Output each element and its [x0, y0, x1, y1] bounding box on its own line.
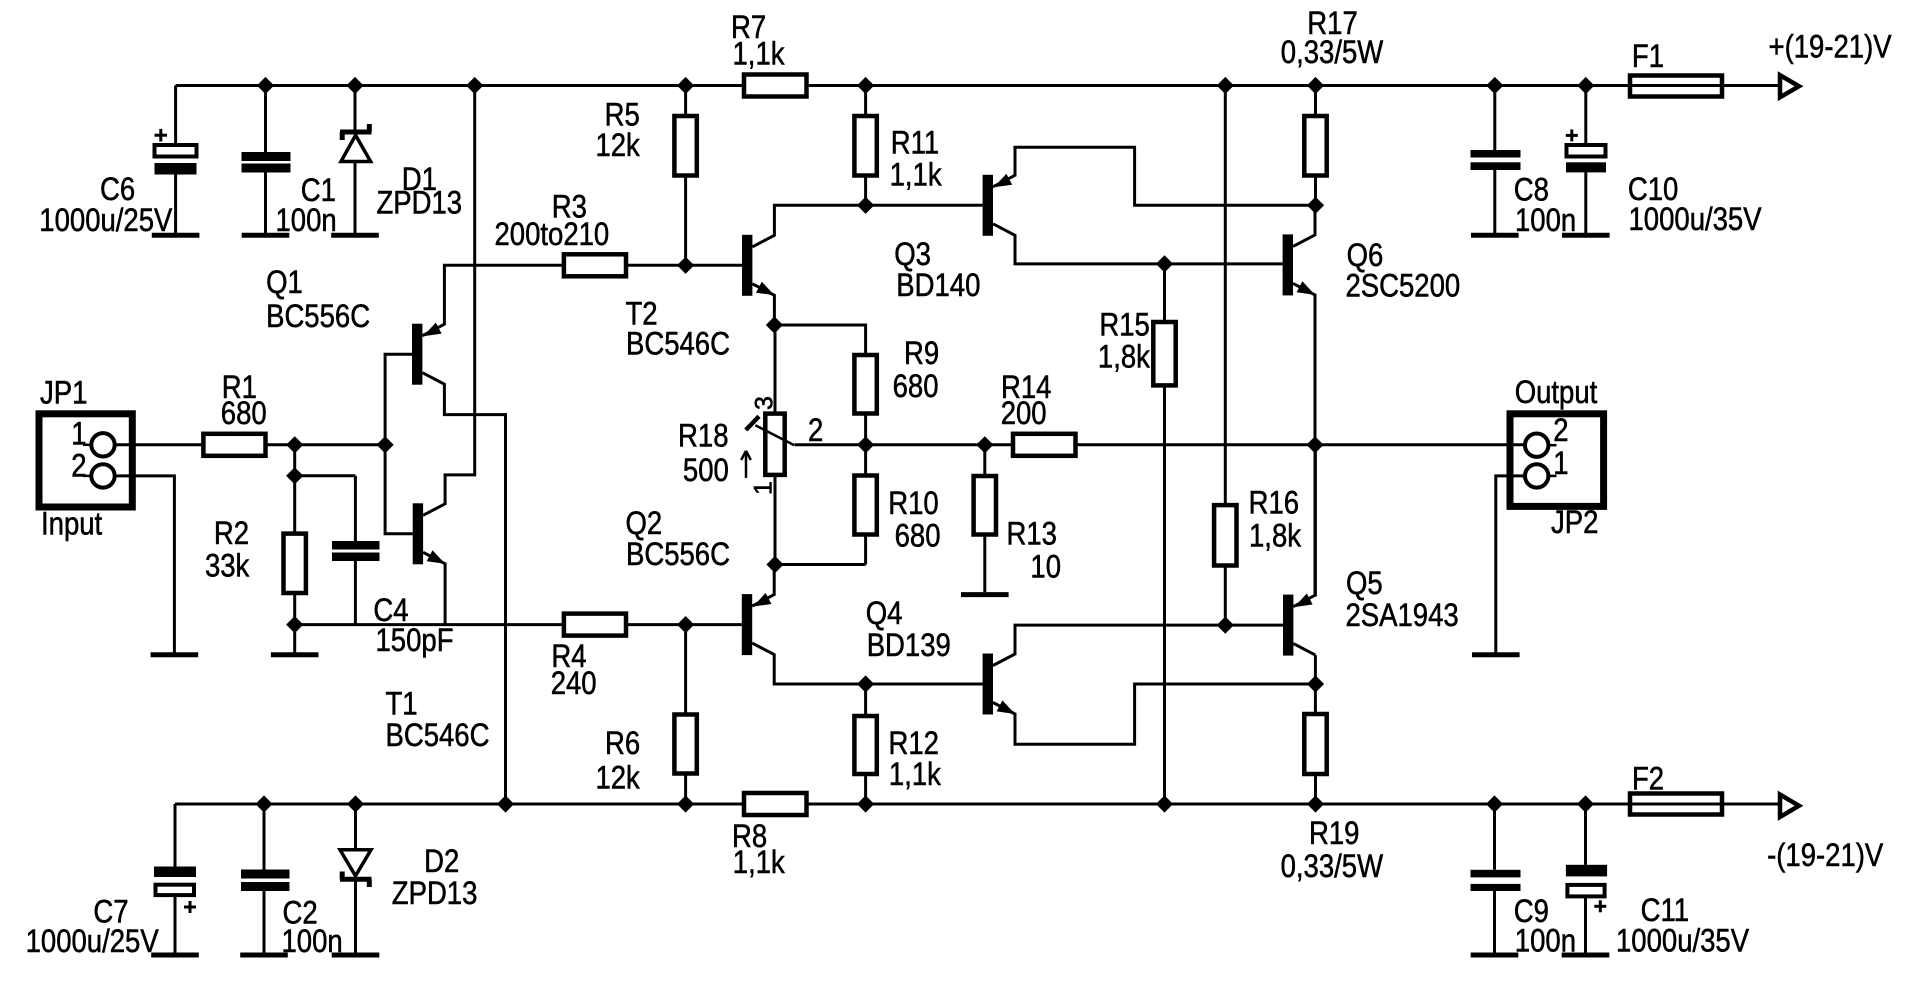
ground for D2	[332, 953, 380, 958]
svg-text:240: 240	[551, 666, 597, 701]
svg-text:680: 680	[895, 519, 941, 554]
transistor T2 bar	[742, 235, 752, 296]
svg-text:12k: 12k	[595, 128, 639, 163]
potentiometer R18	[678, 325, 794, 565]
resistor R17	[1281, 6, 1384, 205]
resistor R7	[731, 10, 807, 96]
svg-text:680: 680	[221, 396, 267, 431]
wire F1 to arrow	[1722, 84, 1780, 87]
wire Q5 collector down	[1314, 655, 1317, 714]
junction on V+ rail x=1315.5	[1307, 77, 1324, 94]
resistor R6	[595, 625, 696, 804]
svg-text:1,8k: 1,8k	[1249, 519, 1301, 554]
svg-text:2SC5200: 2SC5200	[1346, 269, 1461, 304]
wire JP1 pin2 to ground	[115, 476, 175, 653]
svg-text:Q5: Q5	[1346, 566, 1383, 601]
junction R17/Q6 collector node	[1307, 197, 1324, 214]
junction base node B	[377, 436, 394, 453]
ground for C7	[151, 953, 199, 958]
transistor Q1 upper lead	[422, 324, 444, 336]
svg-text:R2: R2	[214, 516, 249, 551]
resistor R15	[1098, 264, 1176, 804]
transistor T2 emitter arrow	[756, 282, 774, 296]
junction R11 node	[857, 197, 874, 214]
JP1 pin 2	[71, 449, 115, 488]
ground for C6	[152, 233, 200, 238]
svg-text:Q1: Q1	[266, 265, 303, 300]
ground for C9	[1471, 953, 1519, 958]
wire Q4 collector to Q5 base	[1015, 625, 1283, 655]
junction on V- rail x=685.6	[677, 795, 694, 812]
wire T2 emitter to R9	[774, 325, 865, 355]
resistor R11	[854, 86, 941, 206]
resistor R10	[854, 445, 940, 565]
svg-text:R11: R11	[891, 126, 939, 161]
transistor Q4 upper lead	[993, 654, 1015, 666]
junction R2/feedback node	[286, 616, 303, 633]
junction Q2 emitter node	[766, 556, 783, 573]
transistor T1 lower lead	[423, 552, 445, 564]
svg-text:1,1k: 1,1k	[889, 757, 941, 792]
terminal arrow -supply	[1780, 795, 1799, 818]
wire Q5 emitter up to output node	[1314, 445, 1317, 596]
net V- rail right segment	[807, 803, 1631, 806]
svg-text:R15: R15	[1099, 308, 1149, 343]
capacitor C9	[1471, 804, 1576, 959]
wire Q3 collector to Q6 base	[1015, 234, 1283, 264]
resistor R12	[854, 684, 941, 804]
ground for C8	[1471, 233, 1519, 238]
wire R3 to T2 base	[626, 264, 742, 267]
wire T1 collector to V+ rail	[445, 86, 475, 505]
net V+ rail left segment	[176, 84, 744, 87]
wire output node down to Q5 emitter	[1314, 445, 1317, 596]
svg-text:BC556C: BC556C	[626, 537, 730, 572]
svg-text:10: 10	[1030, 550, 1061, 585]
svg-text:BD140: BD140	[896, 268, 980, 303]
transistor Q3 bar	[983, 175, 993, 236]
wire base node to T1 base	[385, 445, 413, 534]
wire Q6 collector up	[1314, 205, 1317, 236]
svg-text:BC546C: BC546C	[626, 327, 730, 362]
resistor R16	[1214, 86, 1301, 626]
wire input node down to R2/C4 tap	[293, 445, 296, 534]
svg-text:R6: R6	[605, 726, 640, 761]
svg-text:JP2: JP2	[1551, 505, 1598, 540]
svg-text:2: 2	[808, 413, 823, 448]
svg-text:ZPD13: ZPD13	[392, 876, 478, 911]
svg-text:BD139: BD139	[867, 628, 951, 663]
svg-text:Output: Output	[1515, 375, 1598, 410]
junction R16/Q5 base node	[1217, 617, 1234, 634]
svg-text:1,1k: 1,1k	[733, 37, 785, 72]
connector JP1	[39, 376, 132, 542]
wire R1 to input node	[266, 443, 386, 446]
svg-text:BC546C: BC546C	[386, 718, 490, 753]
junction on V+ rail x=1225.3	[1217, 77, 1234, 94]
transistor Q5 lower lead	[1293, 644, 1315, 656]
transistor Q6 bar	[1283, 234, 1293, 295]
svg-text:1,1k: 1,1k	[890, 158, 942, 193]
capacitor C8	[1471, 86, 1577, 239]
svg-text:0,33/5W: 0,33/5W	[1281, 35, 1384, 70]
wire Q6 emitter down to output	[1314, 294, 1317, 445]
junction R19/Q5 collector node	[1307, 675, 1324, 692]
connector JP2	[1510, 375, 1604, 540]
transistor Q3 lower lead	[993, 224, 1015, 236]
wire T1 emitter to feedback line	[444, 563, 447, 625]
svg-text:680: 680	[893, 369, 939, 404]
wire Q4 emitter loop to R19 node	[1015, 684, 1316, 744]
junction on V+ rail x=355	[346, 77, 363, 94]
svg-text:1,1k: 1,1k	[733, 845, 785, 880]
svg-text:2SA1943: 2SA1943	[1346, 598, 1459, 633]
wire R4 to Q2 base	[626, 623, 742, 626]
transistor Q6 upper lead	[1293, 235, 1315, 247]
transistor T1 emitter arrow	[427, 550, 445, 564]
junction on V- rail x=1315.5	[1307, 795, 1324, 812]
net V- rail left segment	[175, 803, 744, 806]
transistor T1 bar	[413, 503, 423, 564]
transistor Q1 emitter arrow	[423, 323, 441, 337]
ground for C10	[1562, 233, 1610, 238]
svg-text:1000u/35V: 1000u/35V	[1616, 924, 1749, 959]
junction R13 node	[976, 436, 993, 453]
transistor T2 lower lead	[752, 284, 774, 296]
svg-text:R18: R18	[678, 419, 728, 454]
svg-text:R16: R16	[1249, 486, 1299, 521]
transistor Q5 bar	[1283, 595, 1293, 656]
wire R10 to Q2 emitter node	[775, 563, 866, 566]
transistor Q6 emitter arrow	[1297, 281, 1315, 295]
wire JP2 pin1 to ground	[1496, 476, 1525, 653]
svg-text:1000u/25V: 1000u/25V	[26, 924, 159, 959]
svg-text:1: 1	[750, 481, 778, 495]
junction R9/R10 node	[857, 436, 874, 453]
svg-text:F1: F1	[1632, 39, 1664, 74]
capacitor C2	[241, 804, 343, 960]
capacitor C7	[26, 804, 196, 960]
fuse F1	[1630, 39, 1722, 96]
resistor R8	[732, 793, 807, 881]
svg-text:Q4: Q4	[866, 596, 903, 631]
junction on V- rail x=1585.5	[1577, 795, 1594, 812]
ground for C1	[242, 233, 290, 238]
wire feedback line to R4	[295, 623, 564, 626]
capacitor C4	[332, 476, 453, 659]
transistor Q3 emitter arrow	[994, 174, 1012, 188]
transistor Q4 bar	[983, 654, 993, 715]
fuse F2	[1630, 762, 1722, 815]
zener diode D1	[340, 86, 462, 234]
ground for feedback node	[271, 652, 319, 657]
svg-text:Input: Input	[41, 507, 103, 542]
junction Q6 emitter / output node	[1306, 436, 1323, 453]
junction on V+ rail x=1585.8	[1577, 77, 1594, 94]
junction on V+ rail x=685.6	[677, 77, 694, 94]
svg-text:1: 1	[71, 417, 86, 452]
ground for JP1 pin2	[151, 652, 199, 657]
ground for R13	[961, 592, 1009, 597]
wire T2 collector line	[774, 205, 982, 236]
wire output node to JP2	[1316, 443, 1526, 446]
wire R14 to output node	[1076, 443, 1316, 446]
transistor Q4 emitter arrow	[997, 700, 1015, 714]
svg-text:BC556C: BC556C	[266, 299, 370, 334]
JP2 pin 2	[1525, 413, 1569, 457]
capacitor C11	[1566, 804, 1749, 959]
junction on V- rail x=505.5	[497, 795, 514, 812]
resistor R5	[595, 86, 696, 266]
transistor Q4 lower lead	[993, 703, 1015, 715]
svg-text:R13: R13	[1007, 517, 1057, 552]
capacitor C1	[242, 86, 337, 239]
transistor Q2 upper lead	[752, 595, 774, 607]
wire R2 to ground node	[293, 593, 296, 625]
svg-text:200: 200	[1001, 396, 1047, 431]
svg-text:-(19-21)V: -(19-21)V	[1767, 838, 1883, 873]
junction R12 node	[857, 675, 874, 692]
ground for JP2 pin1	[1472, 652, 1520, 657]
ground for D1	[331, 233, 379, 238]
junction on V- rail x=264	[255, 795, 272, 812]
wire R18 wiper to output line	[795, 443, 1013, 446]
transistor Q2 bar	[742, 594, 752, 655]
svg-text:2: 2	[71, 449, 86, 484]
transistor Q2 lower lead	[752, 643, 774, 655]
junction on V+ rail x=265.5	[257, 77, 274, 94]
svg-text:12k: 12k	[595, 761, 639, 796]
svg-text:R10: R10	[888, 486, 938, 521]
wire Q3 emitter loop to R17 node	[1015, 147, 1316, 205]
JP2 pin 1	[1525, 446, 1569, 487]
wire F2 to arrow	[1722, 803, 1780, 806]
JP1 pin 1	[71, 417, 115, 457]
svg-text:D2: D2	[424, 844, 459, 879]
svg-text:33k: 33k	[205, 549, 249, 584]
wire Q1 collector to V- rail	[444, 383, 505, 804]
svg-text:200to210: 200to210	[495, 217, 610, 252]
transistor T1 upper lead	[423, 504, 445, 516]
wire C4 tap to C4	[295, 474, 356, 477]
junction on V+ rail x=474.7	[466, 77, 483, 94]
junction on V- rail x=1494.5	[1486, 795, 1503, 812]
ground for C2	[240, 953, 288, 958]
resistor R1	[203, 370, 266, 456]
svg-text:150pF: 150pF	[376, 623, 454, 658]
svg-text:1: 1	[1553, 446, 1568, 481]
wire Q2 collector line	[774, 654, 982, 685]
junction R5/R3 node	[677, 257, 694, 274]
junction R15 node	[1156, 255, 1173, 272]
wire Q2 emitter up	[773, 565, 776, 596]
wire base node to Q1 base	[385, 354, 412, 445]
svg-text:JP1: JP1	[40, 376, 87, 411]
net V+ rail right segment	[807, 84, 1631, 87]
resistor R14	[1001, 370, 1076, 456]
svg-text:R19: R19	[1309, 816, 1359, 851]
wire T2 emitter down	[773, 294, 776, 325]
resistor R19	[1281, 714, 1384, 885]
svg-text:R9: R9	[904, 336, 939, 371]
svg-text:0,33/5W: 0,33/5W	[1281, 849, 1384, 884]
transistor Q3 upper lead	[993, 175, 1015, 187]
svg-text:F2: F2	[1632, 762, 1664, 797]
capacitor C6	[39, 86, 196, 239]
svg-text:T1: T1	[386, 687, 418, 722]
zener diode D2	[340, 804, 477, 953]
svg-text:+(19-21)V: +(19-21)V	[1769, 30, 1892, 65]
resistor R2	[205, 516, 306, 593]
junction on V+ rail x=1494.8	[1486, 77, 1503, 94]
svg-text:2: 2	[1553, 413, 1568, 448]
junction on V- rail x=355.5	[347, 795, 364, 812]
svg-text:1,8k: 1,8k	[1098, 340, 1150, 375]
resistor R13	[974, 445, 1061, 592]
transistor Q5 upper lead	[1293, 595, 1315, 607]
ground for C11	[1562, 953, 1610, 958]
junction R6 node	[677, 616, 694, 633]
svg-text:500: 500	[683, 453, 729, 488]
transistor Q6 lower lead	[1293, 283, 1315, 295]
resistor R3	[495, 190, 627, 277]
wire Q1 emitter to R3	[444, 265, 564, 325]
wire down from feedback node	[293, 625, 296, 653]
resistor R9	[854, 336, 939, 445]
resistor R4	[551, 614, 626, 702]
svg-text:3: 3	[751, 396, 779, 410]
transistor T2 upper lead	[752, 235, 774, 247]
transistor Q5 emitter arrow	[1294, 594, 1312, 608]
transistor Q2 emitter arrow	[753, 593, 771, 607]
junction C4 tap	[286, 467, 303, 484]
junction on V+ rail x=865.6	[857, 77, 874, 94]
junction on V- rail x=1164.5	[1156, 795, 1173, 812]
capacitor C10	[1566, 86, 1762, 238]
terminal arrow +supply	[1780, 75, 1799, 97]
junction input node A	[286, 436, 303, 453]
transistor Q1 lower lead	[422, 373, 444, 385]
wire JP1 pin1 to R1	[115, 443, 204, 446]
svg-text:1000u/35V: 1000u/35V	[1629, 202, 1762, 237]
svg-text:ZPD13: ZPD13	[377, 186, 463, 221]
junction on V- rail x=865.6	[857, 795, 874, 812]
junction T2 emitter node	[766, 316, 783, 333]
transistor Q1 bar	[412, 324, 422, 385]
